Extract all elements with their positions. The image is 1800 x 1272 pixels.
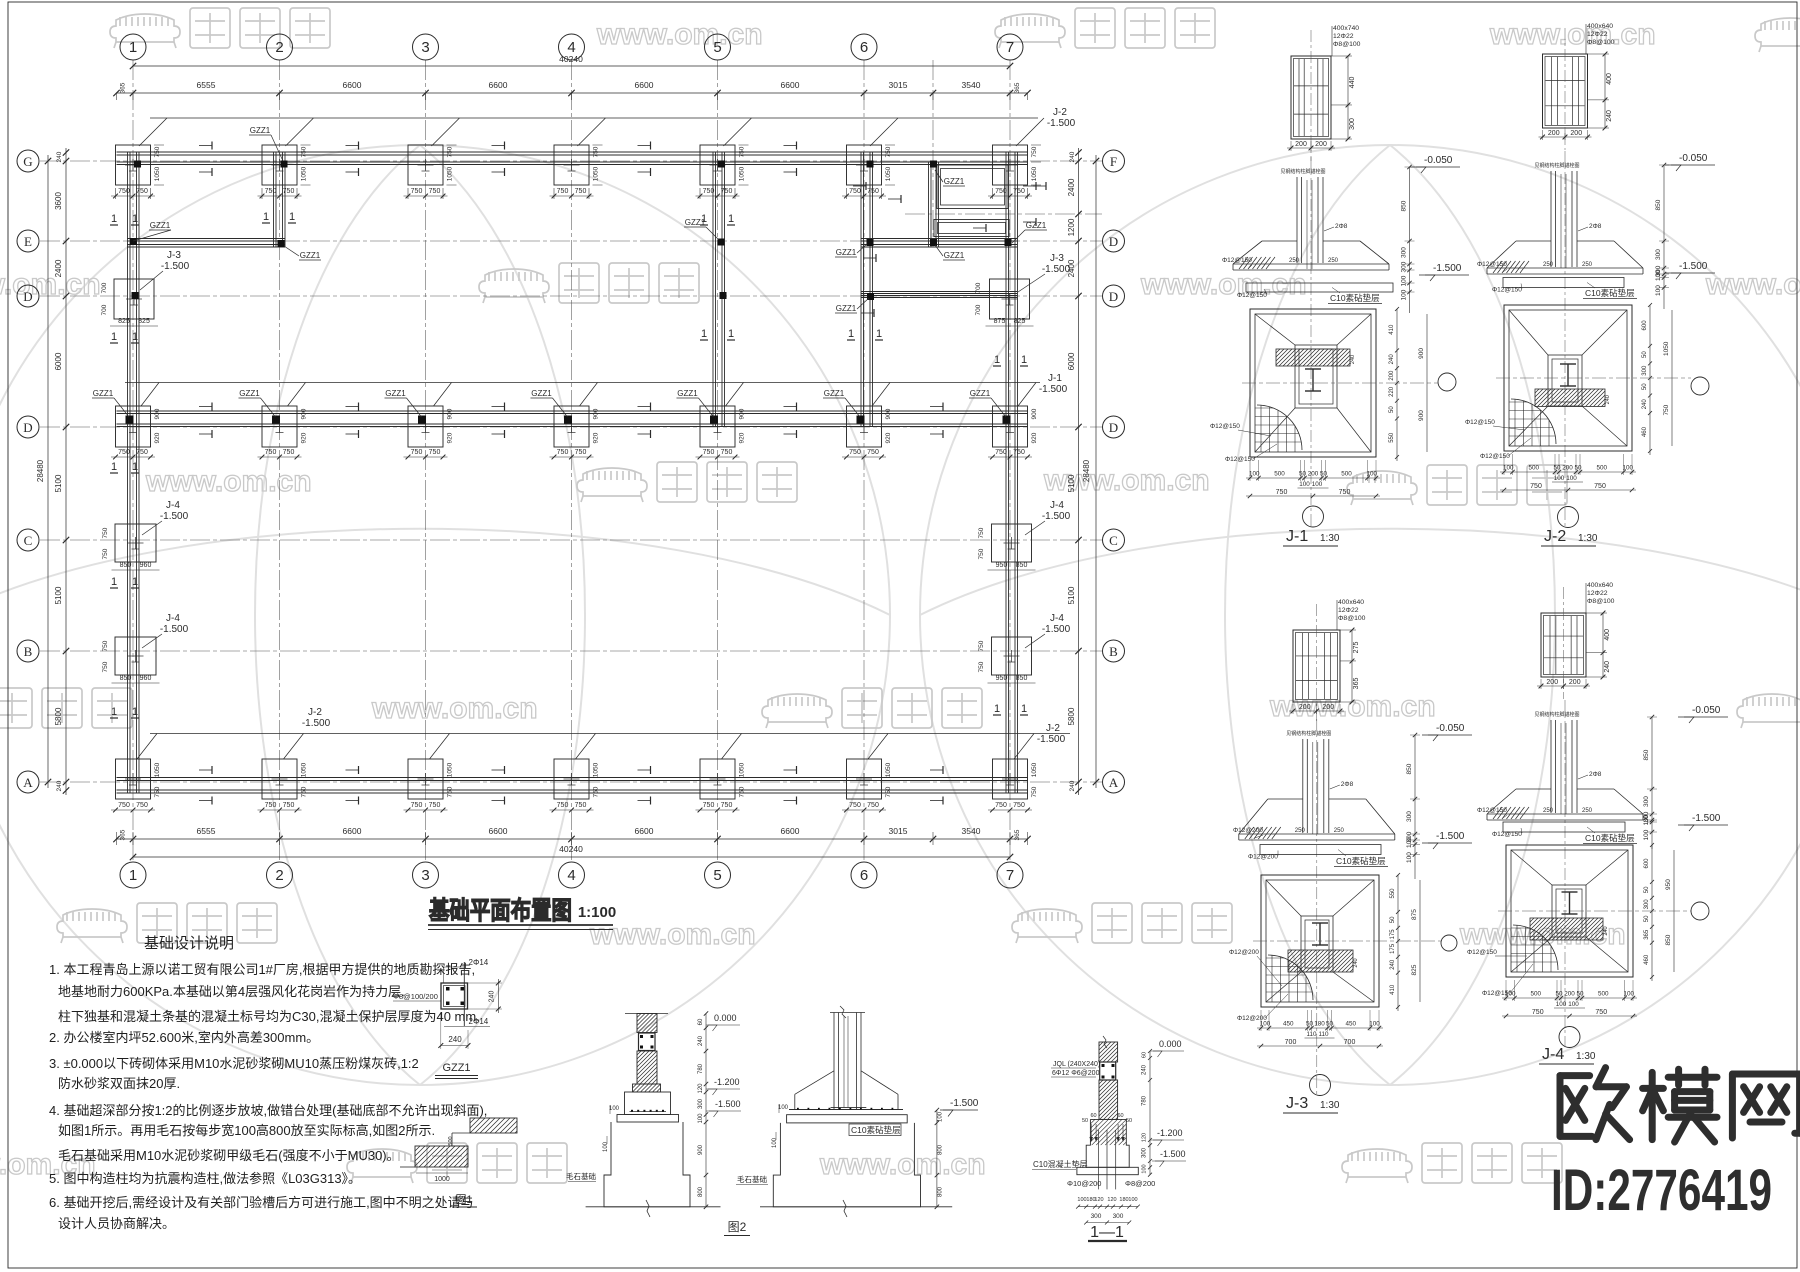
svg-text:1: 1 xyxy=(129,39,137,56)
svg-text:7: 7 xyxy=(1006,39,1014,56)
svg-text:750: 750 xyxy=(557,188,569,195)
svg-text:Φ12@150: Φ12@150 xyxy=(1477,807,1507,814)
detail figure 2 steel column on rubble xyxy=(833,1013,835,1110)
svg-text:200: 200 xyxy=(1569,679,1581,686)
svg-text:50: 50 xyxy=(1082,1118,1088,1124)
svg-text:C10素砧垫层: C10素砧垫层 xyxy=(1585,288,1635,298)
svg-text:100: 100 xyxy=(1566,475,1577,482)
svg-text:1: 1 xyxy=(132,213,138,225)
bottom row column footings J-2 on axis A xyxy=(116,759,151,799)
svg-text:Φ8@100/200: Φ8@100/200 xyxy=(393,992,438,1001)
svg-text:750: 750 xyxy=(1530,483,1542,490)
svg-text:300: 300 xyxy=(1349,118,1356,130)
svg-text:750: 750 xyxy=(885,146,892,157)
svg-text:60: 60 xyxy=(1090,1113,1096,1119)
intermediate vertical axis between 6 and 7 xyxy=(932,60,934,247)
svg-text:1050: 1050 xyxy=(1031,166,1038,181)
svg-text:750: 750 xyxy=(411,188,423,195)
svg-text:100: 100 xyxy=(609,1106,620,1112)
svg-text:毛石基础: 毛石基础 xyxy=(737,1174,767,1184)
svg-text:700: 700 xyxy=(101,304,108,315)
svg-text:J-1: J-1 xyxy=(1048,373,1062,384)
svg-text:400x740: 400x740 xyxy=(1333,25,1359,32)
svg-text:100: 100 xyxy=(1655,270,1662,281)
svg-text:900: 900 xyxy=(593,408,600,419)
svg-text:750: 750 xyxy=(411,802,423,809)
svg-text:920: 920 xyxy=(885,432,892,443)
equipment pit room lower xyxy=(934,220,1009,237)
svg-text:850: 850 xyxy=(1401,200,1408,211)
svg-text:825: 825 xyxy=(1014,318,1026,325)
svg-text:900: 900 xyxy=(1031,408,1038,419)
svg-text:基础平面布置图: 基础平面布置图 xyxy=(429,896,572,925)
svg-text:100: 100 xyxy=(1299,481,1310,488)
svg-text:500: 500 xyxy=(1596,465,1607,472)
svg-text:850: 850 xyxy=(1643,749,1650,760)
svg-text:2400: 2400 xyxy=(1067,259,1076,277)
svg-text:750: 750 xyxy=(102,527,109,538)
svg-text:750: 750 xyxy=(1013,802,1025,809)
detail J-4 footing plan xyxy=(1506,845,1633,977)
svg-text:750: 750 xyxy=(978,527,985,538)
svg-text:-1.500: -1.500 xyxy=(1039,384,1068,395)
svg-text:750: 750 xyxy=(593,786,600,797)
svg-text:750: 750 xyxy=(429,802,441,809)
svg-text:C10混凝土垫层: C10混凝土垫层 xyxy=(1033,1159,1088,1169)
svg-text:GZZ1: GZZ1 xyxy=(239,389,260,398)
svg-text:500: 500 xyxy=(1341,471,1352,478)
svg-text:2: 2 xyxy=(275,867,283,884)
svg-text:Φ12@150: Φ12@150 xyxy=(1210,423,1240,430)
svg-text:100: 100 xyxy=(1643,829,1650,840)
svg-text:1: 1 xyxy=(129,867,137,884)
svg-text:6. 基础开挖后,需经设计及有关部门验槽后方可进行施工,图中: 6. 基础开挖后,需经设计及有关部门验槽后方可进行施工,图中不明之处请与 xyxy=(49,1195,474,1210)
svg-text:JQL (240X240): JQL (240X240) xyxy=(1053,1061,1100,1068)
svg-text:750: 750 xyxy=(1532,1009,1544,1016)
svg-text:2. 办公楼室内坪52.600米,室内外高差300mm。: 2. 办公楼室内坪52.600米,室内外高差300mm。 xyxy=(49,1030,319,1045)
svg-text:750: 750 xyxy=(995,449,1007,456)
svg-text:50: 50 xyxy=(1390,916,1396,923)
svg-text:基础设计说明: 基础设计说明 xyxy=(144,935,234,952)
svg-text:950: 950 xyxy=(1665,879,1672,890)
svg-text:200: 200 xyxy=(1299,704,1311,711)
svg-text:120: 120 xyxy=(698,1083,704,1094)
svg-text:200: 200 xyxy=(1548,130,1560,137)
svg-text:4. 基础超深部分按1:2的比例逐步放坡,做错台处理(基础底: 4. 基础超深部分按1:2的比例逐步放坡,做错台处理(基础底部不允许出现斜面), xyxy=(49,1103,487,1118)
svg-text:365: 365 xyxy=(1353,678,1360,690)
svg-text:250: 250 xyxy=(1543,808,1554,814)
svg-text:750: 750 xyxy=(849,188,861,195)
svg-text:6600: 6600 xyxy=(489,80,508,90)
svg-text:1: 1 xyxy=(111,213,117,225)
svg-text:3015: 3015 xyxy=(889,826,908,836)
svg-text:1—1: 1—1 xyxy=(1090,1224,1124,1241)
svg-text:5: 5 xyxy=(713,39,721,56)
svg-text:100: 100 xyxy=(1406,837,1413,848)
svg-text:1: 1 xyxy=(289,211,295,223)
svg-text:240: 240 xyxy=(1142,1064,1148,1075)
svg-text:920: 920 xyxy=(301,432,308,443)
svg-text:450: 450 xyxy=(1345,1021,1356,1028)
svg-text:3600: 3600 xyxy=(54,192,63,210)
svg-text:40240: 40240 xyxy=(559,844,583,854)
svg-text:100: 100 xyxy=(1077,1197,1086,1203)
svg-text:2: 2 xyxy=(275,39,283,56)
svg-text:1050: 1050 xyxy=(885,166,892,181)
svg-text:5100: 5100 xyxy=(1067,586,1076,604)
svg-text:500: 500 xyxy=(1530,991,1541,998)
svg-text:地基地耐力600KPa.本基础以第4层强风化花岗岩作为持力层: 地基地耐力600KPa.本基础以第4层强风化花岗岩作为持力层. xyxy=(58,984,405,999)
svg-text:1:100: 1:100 xyxy=(578,904,616,921)
svg-text:E: E xyxy=(24,234,32,249)
svg-text:C10素砧垫层: C10素砧垫层 xyxy=(1336,856,1386,866)
svg-text:Φ12@150: Φ12@150 xyxy=(1477,261,1507,268)
svg-text:B: B xyxy=(24,644,33,659)
svg-text:50: 50 xyxy=(1576,991,1584,998)
svg-text:100: 100 xyxy=(1556,1001,1567,1008)
vertical grid axes 1-7 xyxy=(132,60,134,862)
svg-text:100: 100 xyxy=(1128,1197,1137,1203)
svg-text:250: 250 xyxy=(1582,808,1593,814)
svg-text:200: 200 xyxy=(1570,130,1582,137)
svg-text:600: 600 xyxy=(1642,320,1648,331)
svg-text:750: 750 xyxy=(154,146,161,157)
svg-text:0.000: 0.000 xyxy=(714,1013,737,1023)
svg-text:250: 250 xyxy=(1328,258,1339,264)
detail J-4 column section xyxy=(1541,613,1586,677)
svg-text:D: D xyxy=(1109,234,1118,249)
svg-text:750: 750 xyxy=(265,188,277,195)
svg-text:www.om.cn: www.om.cn xyxy=(819,1148,986,1181)
svg-text:750: 750 xyxy=(283,449,295,456)
svg-text:750: 750 xyxy=(1339,489,1351,496)
svg-text:850: 850 xyxy=(1655,199,1662,210)
svg-text:6600: 6600 xyxy=(343,80,362,90)
svg-text:6600: 6600 xyxy=(635,80,654,90)
svg-text:750: 750 xyxy=(978,661,985,672)
strip footing along axis E (rooms top-left) xyxy=(127,238,285,240)
svg-text:750: 750 xyxy=(739,786,746,797)
svg-text:750: 750 xyxy=(1031,786,1038,797)
svg-text:5800: 5800 xyxy=(1067,707,1076,725)
svg-text:50: 50 xyxy=(1642,383,1648,390)
svg-text:D: D xyxy=(23,420,32,435)
svg-text:750: 750 xyxy=(739,146,746,157)
svg-text:GZZ1: GZZ1 xyxy=(385,389,406,398)
svg-text:-1.500: -1.500 xyxy=(715,1099,741,1109)
svg-text:900: 900 xyxy=(698,1144,704,1155)
svg-text:3: 3 xyxy=(421,39,429,56)
svg-text:100: 100 xyxy=(698,1113,704,1124)
svg-text:Φ10@200: Φ10@200 xyxy=(1067,1179,1101,1188)
footing J-4 at axis 1/C xyxy=(115,524,156,562)
svg-text:0.000: 0.000 xyxy=(1159,1039,1182,1049)
svg-text:50: 50 xyxy=(1320,471,1328,478)
svg-text:200: 200 xyxy=(1562,465,1573,472)
svg-text:700: 700 xyxy=(1344,1039,1356,1046)
svg-text:J-2: J-2 xyxy=(1053,107,1067,118)
svg-text:800: 800 xyxy=(938,1144,944,1155)
svg-text:1050: 1050 xyxy=(154,166,161,181)
GZZ1 column blocks xyxy=(134,161,141,168)
detail J-1 footing plan xyxy=(1250,309,1376,457)
svg-text:1: 1 xyxy=(132,706,138,718)
svg-text:12Φ22: 12Φ22 xyxy=(1338,607,1359,614)
svg-text:3015: 3015 xyxy=(889,80,908,90)
strip footing along axis D right segment 6-7 xyxy=(861,238,1017,240)
svg-text:GZZ1: GZZ1 xyxy=(531,389,552,398)
svg-text:A: A xyxy=(1109,775,1119,790)
svg-text:1: 1 xyxy=(848,328,854,340)
svg-text:1: 1 xyxy=(701,213,707,225)
middle row column footings J-1 on axis D xyxy=(116,406,151,447)
svg-text:750: 750 xyxy=(265,802,277,809)
footing J-3 at axis 7/D xyxy=(990,279,1030,319)
svg-text:500: 500 xyxy=(1274,471,1285,478)
svg-text:900: 900 xyxy=(1418,410,1425,421)
bottom dimension line segments xyxy=(116,838,1028,840)
svg-text:Φ8@100: Φ8@100 xyxy=(1587,39,1615,46)
svg-text:750: 750 xyxy=(867,188,879,195)
svg-text:www.om.cn: www.om.cn xyxy=(589,918,756,951)
axis bubbles left xyxy=(17,150,39,172)
svg-text:2Φ8: 2Φ8 xyxy=(1335,223,1348,230)
svg-text:Φ12@150: Φ12@150 xyxy=(1225,456,1255,463)
svg-text:750: 750 xyxy=(1013,188,1025,195)
strip footing along axis 2 top xyxy=(273,152,275,247)
svg-text:240: 240 xyxy=(1069,780,1076,791)
svg-text:见钢结构柱脚锚栓图: 见钢结构柱脚锚栓图 xyxy=(1534,162,1579,169)
svg-text:5100: 5100 xyxy=(1067,474,1076,492)
svg-text:240: 240 xyxy=(1353,958,1359,967)
svg-text:4: 4 xyxy=(567,867,575,884)
svg-text:120: 120 xyxy=(1142,1133,1148,1142)
svg-text:1: 1 xyxy=(1021,703,1027,715)
svg-text:50: 50 xyxy=(1306,1021,1314,1028)
svg-text:28480: 28480 xyxy=(1082,459,1091,482)
svg-text:100: 100 xyxy=(1312,481,1323,488)
svg-text:Φ12@150: Φ12@150 xyxy=(1465,419,1495,426)
svg-text:1050: 1050 xyxy=(739,166,746,181)
svg-text:750: 750 xyxy=(1276,489,1288,496)
svg-text:900: 900 xyxy=(739,408,746,419)
svg-text:750: 750 xyxy=(849,802,861,809)
svg-text:6555: 6555 xyxy=(197,80,216,90)
svg-text:240: 240 xyxy=(1606,110,1613,122)
leader line middle row J-1 xyxy=(125,382,1040,384)
svg-text:750: 750 xyxy=(1013,449,1025,456)
svg-text:300: 300 xyxy=(698,1098,704,1109)
strip footing along axis 6 xyxy=(860,152,862,427)
detail J-2 column section xyxy=(1543,54,1588,128)
svg-text:图2: 图2 xyxy=(728,1220,747,1234)
svg-text:240: 240 xyxy=(1069,151,1076,162)
svg-text:100: 100 xyxy=(1554,475,1565,482)
axis bubbles right xyxy=(1103,150,1125,172)
svg-text:Φ12@200: Φ12@200 xyxy=(1229,949,1259,956)
svg-text:6600: 6600 xyxy=(781,826,800,836)
svg-text:设计人员协商解决。: 设计人员协商解决。 xyxy=(58,1216,175,1231)
svg-text:D: D xyxy=(1109,420,1118,435)
top row column footings J-2 on axis G/F xyxy=(116,145,151,185)
svg-text:750: 750 xyxy=(867,802,879,809)
svg-text:750: 750 xyxy=(1594,483,1606,490)
svg-text:50: 50 xyxy=(1326,1021,1334,1028)
footing J-4 at axis 7/C xyxy=(992,524,1032,562)
svg-text:700: 700 xyxy=(975,304,982,315)
axis bubbles bottom xyxy=(120,862,146,888)
svg-text:200: 200 xyxy=(1389,370,1395,381)
svg-text:750: 750 xyxy=(118,802,130,809)
svg-text:100: 100 xyxy=(1260,1021,1271,1028)
svg-text:250: 250 xyxy=(1289,258,1300,264)
svg-text:J-4: J-4 xyxy=(166,500,180,511)
svg-text:550: 550 xyxy=(1389,432,1395,443)
svg-text:275: 275 xyxy=(1353,642,1360,654)
svg-text:750: 750 xyxy=(978,640,985,651)
watermark large arcs xyxy=(0,145,1800,1085)
svg-text:5. 图中构造柱均为抗震构造柱,做法参照《L03G313》。: 5. 图中构造柱均为抗震构造柱,做法参照《L03G313》。 xyxy=(49,1171,361,1186)
leader line bottom row J-2 xyxy=(150,733,1070,735)
svg-text:250: 250 xyxy=(1295,828,1306,834)
svg-text:600: 600 xyxy=(1644,858,1650,869)
svg-text:-1.500: -1.500 xyxy=(1042,624,1071,635)
svg-text:60: 60 xyxy=(1117,1113,1123,1119)
svg-text:440: 440 xyxy=(1349,77,1356,89)
svg-text:1050: 1050 xyxy=(447,166,454,181)
svg-text:750: 750 xyxy=(978,548,985,559)
side footing dimensions xyxy=(110,325,158,327)
left dimension column xyxy=(65,148,67,795)
svg-text:J-3: J-3 xyxy=(1286,1095,1308,1112)
site logo text xyxy=(1560,1068,1800,1142)
svg-text:1: 1 xyxy=(132,576,138,588)
svg-text:100: 100 xyxy=(1366,471,1377,478)
svg-text:175: 175 xyxy=(1390,943,1396,954)
svg-text:1000: 1000 xyxy=(434,1176,450,1183)
strip footing along axis G/F (top) xyxy=(117,151,1029,153)
svg-text:6: 6 xyxy=(860,39,868,56)
svg-text:750: 750 xyxy=(429,188,441,195)
svg-text:1: 1 xyxy=(111,461,117,473)
svg-text:100: 100 xyxy=(1401,275,1408,286)
svg-text:6555: 6555 xyxy=(197,826,216,836)
right dimension column xyxy=(1078,148,1080,795)
svg-text:1: 1 xyxy=(111,706,117,718)
svg-text:365: 365 xyxy=(1014,829,1021,840)
svg-text:GZZ1: GZZ1 xyxy=(970,389,991,398)
svg-text:250: 250 xyxy=(1582,262,1593,268)
svg-text:1:30: 1:30 xyxy=(1578,533,1598,544)
svg-text:1: 1 xyxy=(701,328,707,340)
svg-text:850: 850 xyxy=(1406,763,1413,774)
svg-text:50: 50 xyxy=(1389,406,1395,413)
svg-text:-1.500: -1.500 xyxy=(1436,831,1465,842)
strip footing along axis 7 (right) xyxy=(1005,152,1007,793)
svg-text:J-1: J-1 xyxy=(1286,528,1308,545)
svg-text:D: D xyxy=(1109,289,1118,304)
svg-text:100: 100 xyxy=(603,1141,609,1152)
svg-text:-1.500: -1.500 xyxy=(160,624,189,635)
svg-text:875: 875 xyxy=(994,318,1006,325)
svg-text:750: 750 xyxy=(447,786,454,797)
svg-text:750: 750 xyxy=(703,449,715,456)
svg-text:50: 50 xyxy=(1553,465,1561,472)
svg-text:100: 100 xyxy=(1406,852,1413,863)
svg-text:920: 920 xyxy=(154,432,161,443)
svg-text:Φ8@100: Φ8@100 xyxy=(1333,41,1361,48)
svg-text:240: 240 xyxy=(1389,354,1395,365)
svg-text:-0.050: -0.050 xyxy=(1692,705,1721,716)
svg-text:Φ12@150: Φ12@150 xyxy=(1222,257,1252,264)
svg-text:1050: 1050 xyxy=(154,762,161,777)
svg-text:1: 1 xyxy=(876,328,882,340)
svg-text:3. ±0.000以下砖砌体采用M10水泥砂浆砌MU10蒸压: 3. ±0.000以下砖砌体采用M10水泥砂浆砌MU10蒸压粉煤灰砖,1:2 xyxy=(49,1056,419,1071)
svg-text:450: 450 xyxy=(1283,1021,1294,1028)
svg-text:750: 750 xyxy=(557,449,569,456)
svg-text:GZZ1: GZZ1 xyxy=(944,251,965,260)
svg-text:750: 750 xyxy=(447,146,454,157)
svg-text:240: 240 xyxy=(1390,959,1396,970)
svg-text:240: 240 xyxy=(1605,395,1611,404)
svg-text:100: 100 xyxy=(1655,285,1662,296)
svg-text:300: 300 xyxy=(1644,899,1650,910)
svg-text:300: 300 xyxy=(1091,1213,1102,1220)
svg-text:100: 100 xyxy=(1249,471,1260,478)
svg-text:750: 750 xyxy=(703,188,715,195)
svg-text:200: 200 xyxy=(1564,991,1575,998)
strip footing along axis A (bottom) xyxy=(117,777,1029,779)
detail J-1 column section xyxy=(1291,56,1331,139)
svg-text:1: 1 xyxy=(132,331,138,343)
svg-text:2Φ14: 2Φ14 xyxy=(469,1017,489,1026)
svg-text:220: 220 xyxy=(1389,386,1395,397)
svg-text:200: 200 xyxy=(1322,704,1334,711)
svg-text:750: 750 xyxy=(118,449,130,456)
svg-text:2400: 2400 xyxy=(54,259,63,277)
svg-text:B: B xyxy=(1109,644,1118,659)
svg-text:460: 460 xyxy=(1644,954,1650,965)
svg-text:780: 780 xyxy=(1142,1095,1148,1106)
svg-text:GZZ1: GZZ1 xyxy=(442,1062,470,1074)
svg-text:900: 900 xyxy=(154,408,161,419)
svg-text:700: 700 xyxy=(975,282,982,293)
svg-text:-1.500: -1.500 xyxy=(1037,734,1066,745)
svg-text:300: 300 xyxy=(1113,1213,1124,1220)
svg-text:防水砂浆双面抹20厚.: 防水砂浆双面抹20厚. xyxy=(58,1076,180,1091)
svg-text:GZZ1: GZZ1 xyxy=(677,389,698,398)
svg-text:5800: 5800 xyxy=(54,707,63,725)
svg-text:60: 60 xyxy=(1142,1052,1148,1058)
svg-text:950: 950 xyxy=(996,675,1008,682)
svg-text:6000: 6000 xyxy=(54,352,63,370)
svg-text:850: 850 xyxy=(1016,562,1028,569)
svg-text:J-3: J-3 xyxy=(1050,253,1064,264)
svg-text:200: 200 xyxy=(1295,141,1307,148)
detail J-2 footing plan xyxy=(1504,305,1632,451)
per-footing dimensions bottom row xyxy=(111,809,155,811)
svg-text:Φ12@150: Φ12@150 xyxy=(1467,949,1497,956)
svg-text:6600: 6600 xyxy=(635,826,654,836)
svg-text:见钢结构柱脚锚栓图: 见钢结构柱脚锚栓图 xyxy=(1280,168,1325,175)
svg-text:4: 4 xyxy=(567,39,575,56)
svg-text:365: 365 xyxy=(120,829,127,840)
svg-text:www.om.cn: www.om.cn xyxy=(145,465,312,498)
svg-text:1: 1 xyxy=(111,576,117,588)
svg-text:750: 750 xyxy=(1663,404,1670,415)
svg-text:1. 本工程青岛上源以诺工贸有限公司1#厂房,根据甲方提供的: 1. 本工程青岛上源以诺工贸有限公司1#厂房,根据甲方提供的地质勘探报告, xyxy=(49,962,475,977)
svg-text:50: 50 xyxy=(1644,915,1650,922)
